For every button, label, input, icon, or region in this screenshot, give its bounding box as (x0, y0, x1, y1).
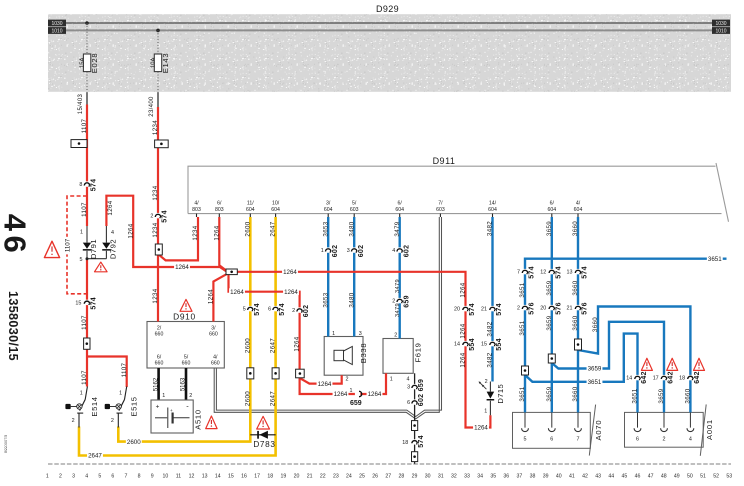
svg-text:7: 7 (577, 437, 580, 443)
svg-text:574: 574 (91, 179, 98, 192)
svg-text:1234: 1234 (152, 120, 159, 135)
svg-text:2647: 2647 (270, 338, 277, 353)
svg-text:1264: 1264 (294, 336, 301, 351)
svg-text:5/: 5/ (352, 201, 357, 207)
svg-text:2647: 2647 (270, 221, 277, 236)
svg-text:3659: 3659 (588, 366, 602, 373)
svg-text:1264: 1264 (284, 289, 298, 296)
svg-text:3660: 3660 (572, 280, 579, 295)
svg-text:2: 2 (111, 418, 114, 424)
svg-text:3659: 3659 (658, 388, 665, 403)
svg-text:D911: D911 (433, 156, 456, 166)
svg-text:D792: D792 (109, 239, 118, 259)
svg-text:1234: 1234 (152, 222, 159, 237)
svg-text:574: 574 (254, 303, 261, 316)
svg-text:2: 2 (394, 333, 397, 339)
svg-text:3479: 3479 (395, 279, 401, 293)
svg-text:6: 6 (268, 307, 271, 313)
svg-text:554: 554 (469, 338, 476, 351)
svg-text:7/: 7/ (438, 201, 443, 207)
svg-text:604: 604 (574, 207, 583, 213)
svg-text:1234: 1234 (152, 288, 159, 303)
svg-text:1264: 1264 (107, 200, 114, 215)
svg-text:4: 4 (392, 248, 395, 254)
svg-text:602 659: 602 659 (418, 379, 425, 406)
svg-text:3: 3 (407, 385, 410, 391)
svg-text:D715: D715 (496, 384, 505, 404)
svg-text:E028: E028 (90, 53, 99, 74)
svg-text:1264: 1264 (175, 264, 189, 271)
svg-text:2647: 2647 (270, 391, 277, 406)
svg-text:4: 4 (689, 437, 692, 443)
svg-text:17: 17 (653, 376, 659, 382)
svg-text:37: 37 (517, 473, 523, 479)
svg-text:6/: 6/ (398, 201, 403, 207)
svg-text:1264: 1264 (460, 352, 467, 367)
svg-text:3651: 3651 (519, 282, 526, 297)
svg-text:51: 51 (700, 473, 706, 479)
svg-text:30: 30 (425, 473, 431, 479)
svg-text:12: 12 (189, 473, 195, 479)
svg-text:3651: 3651 (588, 379, 602, 386)
svg-text:21: 21 (567, 306, 573, 312)
svg-text:3660: 3660 (572, 386, 579, 401)
svg-text:1264: 1264 (460, 282, 467, 297)
svg-text:602: 602 (358, 245, 365, 258)
svg-text:3659: 3659 (546, 386, 553, 401)
svg-text:11/: 11/ (247, 201, 254, 207)
svg-text:23: 23 (333, 473, 339, 479)
svg-text:5162: 5162 (153, 377, 159, 391)
svg-text:2600: 2600 (244, 338, 251, 353)
svg-text:660: 660 (155, 361, 164, 367)
svg-text:18: 18 (679, 376, 685, 382)
svg-text:574: 574 (555, 266, 562, 279)
svg-text:15/403: 15/403 (78, 93, 84, 114)
svg-text:27: 27 (385, 473, 391, 479)
svg-text:14/: 14/ (489, 201, 497, 207)
svg-text:15A: 15A (79, 58, 85, 68)
svg-text:17: 17 (254, 473, 260, 479)
svg-text:47: 47 (648, 473, 654, 479)
svg-text:660: 660 (182, 361, 191, 367)
svg-text:1358030/15: 1358030/15 (6, 291, 20, 361)
svg-text:2: 2 (392, 299, 395, 305)
svg-text:3659: 3659 (546, 280, 553, 295)
svg-text:574: 574 (529, 266, 536, 279)
svg-text:13: 13 (202, 473, 208, 479)
svg-text:E143: E143 (161, 53, 170, 74)
svg-text:576: 576 (582, 302, 589, 315)
svg-text:44: 44 (608, 473, 614, 479)
svg-text:22: 22 (320, 473, 326, 479)
svg-text:46: 46 (0, 214, 33, 257)
svg-text:10/: 10/ (272, 201, 280, 207)
svg-text:38: 38 (530, 473, 536, 479)
svg-text:1234: 1234 (192, 225, 199, 240)
svg-text:2: 2 (72, 418, 75, 424)
svg-text:3659: 3659 (546, 221, 553, 236)
svg-text:53: 53 (726, 473, 732, 479)
svg-text:15: 15 (481, 342, 487, 348)
svg-text:2: 2 (663, 437, 666, 443)
svg-text:1264: 1264 (208, 289, 215, 304)
svg-text:4/: 4/ (213, 355, 218, 361)
svg-text:F619: F619 (414, 342, 423, 362)
svg-text:D791: D791 (89, 239, 98, 259)
svg-text:1264: 1264 (368, 391, 382, 398)
svg-text:A510: A510 (193, 409, 202, 430)
svg-text:3: 3 (72, 473, 75, 479)
svg-text:31: 31 (438, 473, 444, 479)
svg-text:1: 1 (390, 377, 393, 383)
svg-text:16: 16 (241, 473, 247, 479)
svg-text:35: 35 (490, 473, 496, 479)
svg-text:1107: 1107 (81, 370, 88, 385)
svg-text:2: 2 (346, 377, 349, 383)
svg-text:602: 602 (303, 305, 310, 318)
svg-text:5: 5 (524, 437, 527, 443)
svg-text:6: 6 (636, 437, 639, 443)
svg-text:1264: 1264 (283, 269, 297, 276)
svg-text:46: 46 (635, 473, 641, 479)
svg-text:574: 574 (418, 435, 425, 448)
svg-text:7: 7 (125, 473, 128, 479)
svg-text:32: 32 (451, 473, 457, 479)
svg-text:20: 20 (540, 306, 546, 312)
svg-text:576: 576 (555, 302, 562, 315)
svg-text:603: 603 (350, 207, 359, 213)
svg-text:602: 602 (403, 245, 410, 258)
svg-text:23/400: 23/400 (149, 96, 155, 117)
svg-text:3479: 3479 (394, 221, 401, 236)
svg-text:574: 574 (279, 303, 286, 316)
svg-text:2: 2 (517, 306, 520, 312)
svg-text:D929: D929 (376, 4, 399, 14)
svg-text:B338: B338 (359, 343, 368, 364)
svg-text:3653: 3653 (322, 292, 329, 307)
svg-text:45: 45 (621, 473, 627, 479)
svg-text:40: 40 (556, 473, 562, 479)
svg-text:+: + (170, 408, 173, 413)
svg-text:3482: 3482 (487, 221, 494, 236)
svg-text:7: 7 (517, 270, 520, 276)
svg-text:3651: 3651 (519, 320, 526, 335)
svg-text:1: 1 (162, 393, 165, 399)
svg-text:1: 1 (46, 473, 49, 479)
svg-text:803: 803 (215, 207, 224, 213)
svg-text:3651: 3651 (708, 256, 722, 263)
svg-text:1264: 1264 (318, 381, 332, 388)
svg-text:50: 50 (687, 473, 693, 479)
svg-text:E514: E514 (90, 396, 99, 416)
svg-text:604: 604 (324, 207, 333, 213)
svg-text:3651: 3651 (632, 388, 639, 403)
svg-text:3660: 3660 (685, 388, 692, 403)
svg-text:3653: 3653 (322, 221, 329, 236)
svg-text:18: 18 (402, 440, 408, 446)
svg-text:5: 5 (243, 307, 246, 313)
svg-text:1264: 1264 (474, 425, 488, 432)
svg-text:1264: 1264 (230, 289, 244, 296)
svg-text:A070: A070 (594, 420, 603, 441)
svg-text:11: 11 (176, 473, 181, 479)
svg-text:1264: 1264 (460, 323, 467, 338)
svg-text:1264: 1264 (127, 223, 134, 238)
svg-text:659: 659 (403, 295, 410, 308)
svg-text:2647: 2647 (88, 453, 102, 460)
svg-text:4: 4 (111, 230, 114, 236)
svg-text:4/: 4/ (194, 201, 199, 207)
svg-text:15: 15 (75, 300, 81, 306)
svg-text:4: 4 (85, 473, 88, 479)
svg-text:1: 1 (332, 331, 335, 337)
svg-text:5: 5 (98, 473, 101, 479)
svg-text:8: 8 (138, 473, 141, 479)
svg-text:2/: 2/ (157, 326, 162, 332)
svg-text:3659: 3659 (546, 315, 553, 330)
svg-text:3482: 3482 (487, 321, 494, 336)
svg-text:15: 15 (228, 473, 234, 479)
svg-text:1030: 1030 (715, 21, 726, 27)
svg-text:1010: 1010 (51, 29, 62, 35)
svg-text:10: 10 (162, 473, 168, 479)
svg-text:18: 18 (267, 473, 273, 479)
svg-text:604: 604 (246, 207, 255, 213)
svg-text:642: 642 (694, 371, 701, 384)
svg-text:21: 21 (481, 307, 487, 313)
svg-text:4: 4 (407, 377, 410, 383)
svg-text:1010: 1010 (715, 29, 726, 35)
svg-text:29: 29 (412, 473, 418, 479)
svg-text:1264: 1264 (334, 391, 348, 398)
svg-text:642: 642 (668, 371, 675, 384)
svg-text:642: 642 (641, 371, 648, 384)
svg-text:2600: 2600 (127, 439, 141, 446)
svg-text:E515: E515 (129, 396, 138, 416)
svg-text:41: 41 (569, 473, 575, 479)
svg-text:604: 604 (488, 207, 497, 213)
svg-text:659: 659 (350, 400, 362, 407)
svg-text:2: 2 (292, 308, 295, 314)
svg-text:574: 574 (582, 266, 589, 279)
svg-text:803: 803 (192, 207, 201, 213)
svg-text:1107: 1107 (64, 238, 71, 252)
svg-text:3479: 3479 (395, 303, 401, 317)
svg-text:3482: 3482 (487, 352, 494, 367)
svg-text:602: 602 (332, 245, 339, 258)
svg-text:21: 21 (307, 473, 313, 479)
svg-text:1: 1 (321, 248, 324, 254)
svg-text:1107: 1107 (81, 118, 88, 133)
svg-text:3480: 3480 (348, 221, 355, 236)
svg-text:574: 574 (496, 303, 503, 316)
svg-text:2600: 2600 (244, 391, 251, 406)
svg-text:574: 574 (162, 210, 169, 223)
svg-text:1107: 1107 (81, 202, 88, 217)
svg-text:43: 43 (595, 473, 601, 479)
svg-text:14: 14 (626, 376, 632, 382)
svg-text:20: 20 (294, 473, 300, 479)
svg-text:1: 1 (350, 388, 353, 394)
svg-text:1: 1 (80, 229, 83, 235)
svg-text:12: 12 (540, 270, 546, 276)
svg-text:1030: 1030 (51, 21, 62, 27)
svg-text:1107: 1107 (81, 315, 88, 330)
svg-text:574: 574 (469, 303, 476, 316)
svg-text:49: 49 (674, 473, 680, 479)
svg-text:3660: 3660 (572, 221, 579, 236)
svg-text:5/: 5/ (184, 355, 189, 361)
svg-text:3651: 3651 (519, 386, 526, 401)
svg-text:3/: 3/ (211, 326, 216, 332)
svg-text:4/: 4/ (576, 201, 581, 207)
svg-text:EL000558: EL000558 (4, 435, 9, 454)
svg-text:36: 36 (503, 473, 509, 479)
svg-text:3660: 3660 (572, 315, 579, 330)
svg-text:3660: 3660 (592, 317, 599, 332)
svg-text:24: 24 (346, 473, 352, 479)
svg-text:3480: 3480 (348, 292, 355, 307)
svg-text:26: 26 (372, 473, 378, 479)
svg-text:2: 2 (189, 393, 192, 399)
svg-text:1107: 1107 (121, 362, 128, 377)
svg-text:6/: 6/ (157, 355, 162, 361)
svg-text:10A: 10A (150, 58, 156, 68)
svg-text:2600: 2600 (244, 221, 251, 236)
svg-text:2: 2 (150, 214, 153, 220)
svg-text:604: 604 (271, 207, 280, 213)
svg-text:20: 20 (454, 307, 460, 313)
svg-text:2: 2 (59, 473, 62, 479)
svg-text:660: 660 (209, 332, 218, 338)
svg-text:6/: 6/ (550, 201, 555, 207)
svg-text:1: 1 (119, 391, 122, 397)
svg-text:9: 9 (151, 473, 154, 479)
svg-text:D783: D783 (253, 440, 275, 449)
svg-text:554: 554 (496, 338, 503, 351)
svg-text:19: 19 (280, 473, 286, 479)
svg-text:5163: 5163 (181, 377, 187, 391)
svg-text:1234: 1234 (152, 185, 159, 200)
svg-text:D910: D910 (173, 312, 196, 322)
svg-text:6/: 6/ (217, 201, 222, 207)
svg-text:603: 603 (436, 207, 445, 213)
svg-text:28: 28 (399, 473, 405, 479)
svg-text:34: 34 (477, 473, 483, 479)
svg-text:3/: 3/ (326, 201, 331, 207)
svg-text:52: 52 (713, 473, 719, 479)
svg-text:3: 3 (359, 331, 362, 337)
svg-text:1: 1 (80, 391, 83, 397)
svg-text:A001: A001 (705, 419, 714, 440)
svg-text:13: 13 (567, 270, 573, 276)
svg-text:574: 574 (91, 297, 98, 310)
svg-text:+: + (156, 404, 160, 411)
svg-text:604: 604 (395, 207, 404, 213)
svg-text:2: 2 (485, 379, 488, 385)
svg-text:42: 42 (582, 473, 588, 479)
svg-text:3: 3 (347, 248, 350, 254)
svg-text:39: 39 (543, 473, 549, 479)
svg-text:576: 576 (529, 302, 536, 315)
svg-text:660: 660 (211, 361, 220, 367)
svg-text:604: 604 (547, 207, 556, 213)
svg-text:1: 1 (484, 409, 487, 415)
svg-text:6: 6 (111, 473, 114, 479)
svg-text:5: 5 (80, 257, 83, 263)
svg-text:660: 660 (155, 332, 164, 338)
svg-text:48: 48 (661, 473, 667, 479)
svg-text:1264: 1264 (213, 225, 220, 240)
svg-text:25: 25 (359, 473, 365, 479)
svg-text:6: 6 (550, 437, 553, 443)
svg-text:6: 6 (407, 400, 410, 406)
svg-text:8: 8 (79, 182, 82, 188)
svg-text:14: 14 (215, 473, 221, 479)
svg-text:33: 33 (464, 473, 470, 479)
svg-text:14: 14 (454, 342, 460, 348)
